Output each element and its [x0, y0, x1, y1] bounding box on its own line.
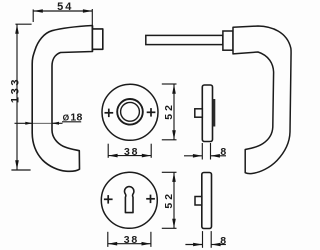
- lever handle right (top view): bar: [146, 35, 223, 44]
- svg-text:8: 8: [220, 235, 226, 247]
- rosette keyhole (front view): [101, 172, 157, 228]
- svg-text:Ø: Ø: [63, 112, 70, 122]
- screw cross right (keyhole rosette): [146, 195, 155, 204]
- svg-text:38: 38: [124, 234, 139, 246]
- lever handle left: neck right edge: [91, 26, 93, 52]
- rosette round (front view): [102, 84, 158, 140]
- screw cross left (keyhole rosette): [104, 195, 113, 204]
- side view plate lower: [202, 173, 212, 229]
- lever handle left: neck end cap: [92, 29, 102, 49]
- lever handle left (profile view): [32, 26, 92, 172]
- rosette ring outer: [117, 99, 143, 125]
- rosette ring inner: [121, 102, 140, 121]
- screw cross right: [147, 108, 156, 117]
- side view plate upper: [202, 85, 212, 142]
- side view lower: spindle notch: [195, 197, 202, 206]
- keyhole: [124, 187, 133, 213]
- dimension 52 upper: [162, 84, 177, 140]
- dimension 38 upper: [108, 144, 151, 158]
- svg-text:38: 38: [124, 146, 139, 158]
- svg-text:52: 52: [163, 102, 175, 120]
- lever handle right: grip: [233, 26, 291, 174]
- dimension 54: [33, 9, 92, 25]
- side view upper: ring lip: [213, 99, 216, 127]
- svg-text:8: 8: [220, 146, 226, 158]
- svg-text:133: 133: [9, 77, 21, 103]
- lever handle right: collar: [223, 31, 233, 50]
- dimension 52 lower: [162, 172, 177, 228]
- svg-text:54: 54: [57, 1, 73, 13]
- dimension 8 lower: [185, 231, 226, 248]
- svg-text:52: 52: [163, 191, 175, 209]
- dimension 8 upper: [184, 143, 226, 160]
- dimension diameter 18 leader: [15, 122, 34, 124]
- dimension 133: [11, 24, 31, 170]
- side view upper: spindle notch: [195, 109, 203, 117]
- screw cross left: [105, 109, 114, 118]
- dimension 38 lower: [108, 232, 151, 247]
